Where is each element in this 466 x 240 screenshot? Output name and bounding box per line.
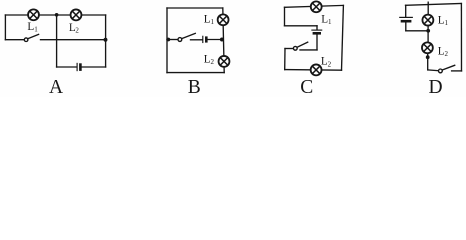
battery cell (circuit D) xyxy=(400,5,413,31)
wire: A middle rail right of switch xyxy=(41,39,106,41)
wire: C top side xyxy=(285,5,344,7)
wire: A bottom loop right xyxy=(82,66,106,68)
node: D lower branch junction dot xyxy=(426,55,430,59)
switch S (circuit C, open) xyxy=(285,42,308,50)
wire: B right side xyxy=(223,8,224,73)
switch S (circuit A, open) xyxy=(24,34,38,41)
lamp L2 (circuit C) xyxy=(311,64,322,75)
svg-text:D: D xyxy=(429,77,443,97)
lamp L1 (circuit D) xyxy=(422,15,433,26)
svg-text:2: 2 xyxy=(75,27,79,35)
wire: C left side upper xyxy=(284,7,286,26)
wire: A top side xyxy=(5,14,105,16)
svg-text:C: C xyxy=(300,77,313,97)
wire: A center vertical branch xyxy=(56,15,58,67)
svg-text:1: 1 xyxy=(445,19,449,27)
svg-text:1: 1 xyxy=(328,18,332,26)
lamp L2 (circuit B) xyxy=(219,56,230,67)
lamp L2 (circuit D) xyxy=(422,42,433,53)
wire: D fixed-contact stub to right side xyxy=(452,70,462,72)
svg-text:B: B xyxy=(188,77,201,97)
switch S (circuit B, open) xyxy=(178,33,195,41)
wire: D lamp branch lower xyxy=(427,53,429,70)
svg-text:2: 2 xyxy=(211,58,215,66)
svg-text:1: 1 xyxy=(211,18,215,26)
wire: D lamp branch between lamps xyxy=(427,26,429,43)
wire: C bottom side xyxy=(285,69,342,72)
lamp L1 (circuit A) xyxy=(28,9,39,20)
wire: C inner step horizontal xyxy=(285,25,318,27)
lamp L1 (circuit B) xyxy=(218,14,229,25)
wire: A right side upper xyxy=(105,15,107,40)
wire: D top side xyxy=(406,4,462,6)
wire: A bottom loop left xyxy=(57,66,76,68)
wire: B middle rail to right side xyxy=(208,39,224,41)
lamp L1 (circuit C) xyxy=(311,1,322,12)
wire: B middle rail left stub xyxy=(167,39,178,41)
svg-text:A: A xyxy=(49,77,63,97)
svg-text:1: 1 xyxy=(34,26,38,34)
wire: B bottom side xyxy=(167,72,224,74)
wire: D battery-to-lamp joining horizontal xyxy=(406,30,428,32)
wire: C fixed-contact horizontal xyxy=(300,49,317,51)
wire: D right side xyxy=(460,4,462,71)
node: A top junction xyxy=(55,13,59,17)
wire: A right side lower xyxy=(105,40,107,67)
battery cell (circuit C) xyxy=(312,26,322,50)
lamp L2 (circuit A) xyxy=(71,9,82,20)
svg-text:2: 2 xyxy=(445,50,449,58)
wire: D lamp branch top tick xyxy=(427,2,429,15)
switch S (circuit D, open) xyxy=(439,65,455,73)
wire: A middle rail left stub xyxy=(5,39,24,41)
wire: C right side xyxy=(342,5,344,70)
wire: A left side xyxy=(4,15,6,40)
node: B right junction xyxy=(220,38,224,42)
battery cell (circuit B) xyxy=(203,36,207,42)
svg-text:2: 2 xyxy=(328,60,332,68)
node: D battery-lamp junction xyxy=(426,29,430,33)
wire: B left side xyxy=(166,8,168,73)
node: B left junction xyxy=(166,38,170,42)
wire: B middle rail right of switch xyxy=(191,39,202,41)
wire: D bottom stub to switch xyxy=(428,69,439,72)
node: A right junction xyxy=(104,38,108,42)
wire: B top side xyxy=(167,7,223,9)
wire: C left side lower xyxy=(284,49,286,70)
battery cell (circuit A) xyxy=(77,63,80,70)
